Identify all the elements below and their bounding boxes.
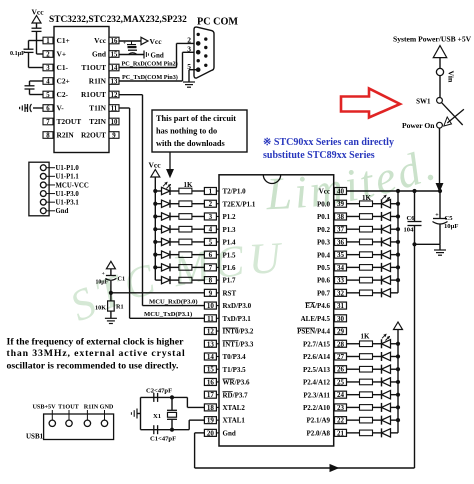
svg-text:25: 25 [337,378,345,386]
svg-text:14: 14 [207,353,215,361]
svg-text:C5: C5 [445,215,454,222]
svg-text:R1IN: R1IN [84,404,99,411]
svg-text:PC_RxD(COM Pin2): PC_RxD(COM Pin2) [122,61,178,68]
svg-text:PSEN/P4.4: PSEN/P4.4 [297,328,330,336]
svg-text:C1+: C1+ [57,36,70,45]
svg-text:30: 30 [337,315,345,323]
svg-text:MCU-VCC: MCU-VCC [56,182,89,189]
svg-text:Vcc: Vcc [150,37,163,46]
svg-text:XTAL2: XTAL2 [223,404,246,412]
svg-text:RD/P3.7: RD/P3.7 [223,391,249,399]
svg-text:T0/P3.4: T0/P3.4 [223,353,247,361]
svg-text:INT0/P3.2: INT0/P3.2 [223,328,254,336]
svg-text:33: 33 [337,277,345,285]
svg-text:36: 36 [337,238,345,246]
svg-text:38: 38 [337,213,345,221]
svg-text:T2OUT: T2OUT [57,117,82,126]
svg-text:13: 13 [111,78,118,85]
svg-text:31: 31 [337,302,345,310]
svg-text:3: 3 [209,213,213,221]
svg-text:Vcc: Vcc [94,36,107,45]
svg-text:V-: V- [57,104,65,113]
svg-text:R2IN: R2IN [57,131,75,140]
svg-text:PC COM: PC COM [197,17,238,28]
svg-text:STC3232,STC232,MAX232,SP232: STC3232,STC232,MAX232,SP232 [49,15,187,25]
svg-text:0.1µF: 0.1µF [10,51,25,57]
svg-text:5: 5 [46,92,50,99]
svg-text:20: 20 [207,429,215,437]
svg-text:+: + [435,213,439,219]
svg-text:has nothing to do: has nothing to do [156,127,217,136]
svg-text:8: 8 [46,132,50,139]
svg-text:15: 15 [207,366,215,374]
svg-text:RST: RST [223,289,237,297]
svg-text:T2EX/P1.1: T2EX/P1.1 [223,200,256,208]
svg-text:ALE/P4.5: ALE/P4.5 [301,315,331,323]
svg-text:P0.4: P0.4 [317,251,331,259]
svg-text:T1OUT: T1OUT [81,63,106,72]
svg-text:28: 28 [337,340,345,348]
svg-text:P2.2/A10: P2.2/A10 [303,404,331,412]
svg-text:9: 9 [209,289,213,297]
svg-text:Vcc: Vcc [32,7,45,16]
svg-text:PC_TxD(COM Pin3): PC_TxD(COM Pin3) [122,74,178,81]
svg-text:WR/P3.6: WR/P3.6 [223,379,251,387]
svg-text:16: 16 [207,378,215,386]
svg-text:26: 26 [337,366,345,374]
svg-text:P2.7/A15: P2.7/A15 [303,340,331,348]
svg-text:P2.1/A9: P2.1/A9 [306,417,330,425]
svg-text:16: 16 [111,38,118,45]
svg-text:+: + [123,42,126,47]
svg-text:USB+5V: USB+5V [32,404,56,411]
svg-text:23: 23 [337,404,345,412]
svg-text:3: 3 [46,65,50,72]
svg-text:4: 4 [46,78,50,85]
svg-text:12: 12 [207,328,215,336]
svg-text:C6: C6 [407,215,416,222]
svg-text:P2.4/A12: P2.4/A12 [303,379,331,387]
svg-text:11: 11 [207,315,214,323]
svg-text:14: 14 [111,65,118,72]
svg-text:U1-P3.1: U1-P3.1 [56,200,80,207]
svg-text:※ STC90xx Series can directly: ※ STC90xx Series can directly [263,137,394,148]
svg-text:Gnd: Gnd [223,429,236,437]
svg-text:P2.5/A13: P2.5/A13 [303,366,331,374]
svg-text:2: 2 [46,51,50,58]
svg-text:Power On: Power On [402,121,435,130]
svg-text:2: 2 [209,200,213,208]
svg-text:24: 24 [337,391,345,399]
svg-text:than 33MHz, external active cr: than 33MHz, external active crystal [7,348,186,359]
svg-text:Gnd: Gnd [56,208,69,215]
svg-text:10µF: 10µF [444,223,458,230]
svg-text:37: 37 [337,226,345,234]
svg-text:T1IN: T1IN [89,104,107,113]
svg-text:V+: V+ [57,50,67,59]
svg-text:P2.3/A11: P2.3/A11 [303,391,330,399]
svg-text:15: 15 [111,51,118,58]
svg-text:11: 11 [111,105,118,112]
svg-text:USB1: USB1 [26,433,44,441]
svg-text:C2<47pF: C2<47pF [146,388,172,395]
svg-text:SW1: SW1 [416,97,431,105]
svg-text:29: 29 [337,328,345,336]
svg-text:Vin: Vin [447,71,456,84]
svg-text:T1OUT: T1OUT [58,404,80,411]
svg-text:C2-: C2- [57,90,69,99]
svg-text:RxD/P3.0: RxD/P3.0 [223,302,252,310]
svg-text:27: 27 [337,353,345,361]
svg-text:1K: 1K [184,181,194,189]
svg-text:C1<47pF: C1<47pF [150,436,176,443]
svg-text:2: 2 [187,36,191,45]
svg-text:10: 10 [207,302,215,310]
svg-text:C1-: C1- [57,63,69,72]
svg-text:INT1/P3.3: INT1/P3.3 [223,340,254,348]
svg-text:System Power/USB +5V: System Power/USB +5V [393,35,472,44]
svg-text:1: 1 [46,38,50,45]
svg-text:6: 6 [46,105,50,112]
svg-text:9: 9 [112,132,116,139]
svg-text:P2.0/A8: P2.0/A8 [306,429,330,437]
svg-text:32: 32 [337,289,345,297]
svg-text:R2OUT: R2OUT [81,131,106,140]
svg-text:oscillator is recommended to u: oscillator is recommended to use directl… [7,361,180,372]
svg-text:10: 10 [111,119,118,126]
svg-text:P0.6: P0.6 [317,277,331,285]
svg-text:P2.6/A14: P2.6/A14 [303,353,331,361]
svg-text:EA/P4.6: EA/P4.6 [305,302,330,310]
svg-text:U1-P1.1: U1-P1.1 [56,174,80,181]
svg-text:34: 34 [337,264,345,272]
svg-text:Vcc: Vcc [149,161,162,170]
svg-text:P0.5: P0.5 [317,264,331,272]
svg-text:1: 1 [209,188,213,196]
svg-text:T2IN: T2IN [89,117,107,126]
svg-text:3: 3 [187,44,191,53]
svg-text:Gnd: Gnd [92,50,107,59]
svg-text:T2/P1.0: T2/P1.0 [223,188,247,196]
svg-text:R1OUT: R1OUT [81,90,106,99]
svg-text:1K: 1K [361,333,371,341]
svg-text:P0.7: P0.7 [317,289,331,297]
svg-text:P1.3: P1.3 [223,226,237,234]
svg-text:Gnd: Gnd [151,52,164,60]
svg-text:T1/P3.5: T1/P3.5 [223,366,247,374]
svg-text:TxD/P3.1: TxD/P3.1 [223,315,252,323]
svg-text:GND: GND [100,404,114,411]
svg-text:U1-P1.0: U1-P1.0 [56,165,80,172]
svg-text:17: 17 [207,391,215,399]
svg-text:104: 104 [404,226,415,233]
svg-text:P0.2: P0.2 [317,226,331,234]
svg-text:P0.3: P0.3 [317,239,331,247]
svg-text:R1IN: R1IN [89,77,107,86]
svg-text:If the frequency of external c: If the frequency of external clock is hi… [7,337,185,348]
svg-text:13: 13 [207,340,215,348]
svg-text:This part of the circuit: This part of the circuit [156,114,236,123]
svg-text:X1: X1 [153,413,161,420]
svg-text:P1.2: P1.2 [223,213,237,221]
svg-text:22: 22 [337,417,345,425]
svg-text:C2+: C2+ [57,77,70,86]
svg-text:with the downloads: with the downloads [156,139,225,148]
svg-text:19: 19 [207,417,215,425]
svg-text:U1-P3.0: U1-P3.0 [56,191,80,198]
svg-text:35: 35 [337,251,345,259]
svg-text:18: 18 [207,404,215,412]
svg-text:4: 4 [209,226,213,234]
svg-text:XTAL1: XTAL1 [223,417,246,425]
svg-text:21: 21 [337,429,345,437]
svg-text:MCU_TxD(P3.1): MCU_TxD(P3.1) [144,311,192,318]
svg-text:12: 12 [111,92,118,99]
svg-text:7: 7 [46,119,50,126]
